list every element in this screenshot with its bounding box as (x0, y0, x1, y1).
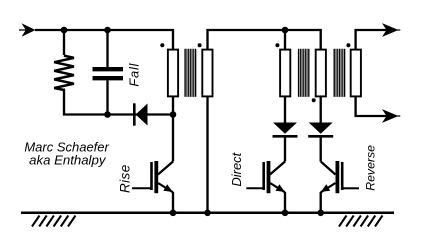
wire D2 to Q2 collector (284, 136, 286, 162)
wire Q2 emitter to ground rail (284, 192, 286, 213)
transformer T2 core A (298, 49, 310, 97)
node junction dot at capacitor top (104, 27, 111, 34)
wire D3 to Q3 collector (320, 136, 322, 162)
node junction dot Q3 emitter (317, 210, 324, 217)
transformer T1 polarity dot primary (160, 43, 164, 47)
transformer T2 winding W1 (280, 50, 290, 97)
transformer T2 polarity dot W1 (275, 43, 279, 47)
wire W1 bottom to diode (284, 96, 286, 124)
node junction dot diode anode (170, 111, 177, 118)
node junction dot at resistor top (61, 27, 68, 34)
transformer T3 polarity dot W3 (346, 43, 350, 47)
diode D3 (reverse branch) (308, 123, 333, 137)
wire top rail segment 1 (35, 30, 173, 49)
input arrow (19, 23, 36, 37)
svg-text:Direct: Direct (229, 151, 244, 186)
ground hatching left (32, 216, 76, 227)
transformer T1 primary winding (168, 50, 178, 97)
transformer T2 polarity dot W2 (bottom) (312, 98, 316, 102)
transformer T3 core B (334, 49, 346, 97)
transformer T1 secondary winding (202, 50, 212, 97)
output arrow top (382, 23, 399, 37)
IGBT Q2 Direct (246, 161, 285, 193)
wire Q3 emitter to ground rail (320, 192, 322, 213)
ground hatching right (339, 216, 383, 227)
transformer T3 winding W3 (351, 50, 361, 97)
svg-text:aka Enthalpy: aka Enthalpy (29, 153, 107, 168)
node junction dot T2 tap (282, 27, 289, 34)
diode D2 (direct branch) (273, 123, 298, 137)
node junction dot T1 secondary ground (204, 210, 211, 217)
wire W3 top to output (356, 30, 387, 49)
node junction dot Q1 emitter (170, 210, 177, 217)
wire top rail segment 2 (208, 30, 321, 49)
ground rail (21, 212, 394, 215)
wire transformer T1 primary down to IGBT (172, 96, 174, 162)
wire capacitor bottom (106, 80, 108, 114)
wire resistor bottom (64, 89, 108, 115)
wire diode Fall horizontal (108, 113, 174, 115)
svg-text:Reverse: Reverse (364, 145, 378, 191)
resistor R (54, 56, 74, 90)
node junction dot Q2 emitter (282, 210, 289, 217)
svg-text:Rise: Rise (117, 164, 132, 193)
wire W2 bottom to diode (320, 96, 322, 124)
transformer T1 polarity dot secondary (198, 43, 202, 47)
wire resistor top (63, 30, 65, 55)
wire top rail T2 primary tap (284, 30, 286, 49)
diode Fall (134, 103, 147, 125)
node junction dot at capacitor bottom (104, 111, 111, 118)
IGBT Q3 Reverse (mirrored) (321, 161, 359, 193)
transformer T2 winding W2 (316, 50, 326, 97)
wire capacitor top (106, 30, 108, 68)
wire W3 bottom to output (356, 96, 387, 116)
wire Q1 emitter to ground rail (172, 192, 174, 213)
transformer T1 core (184, 49, 196, 97)
output arrow bottom (382, 109, 399, 123)
wire T1 secondary bottom to ground (206, 96, 208, 213)
capacitor C (93, 69, 124, 78)
IGBT Q1 Rise (132, 161, 173, 193)
svg-text:Fall: Fall (127, 62, 142, 86)
